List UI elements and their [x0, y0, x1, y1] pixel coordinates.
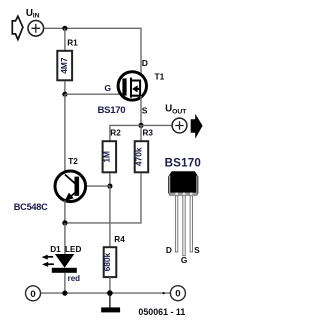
wire R2 to base node: [109, 173, 111, 186]
wire LED to ground rail: [64, 273, 66, 294]
svg-text:D1: D1: [50, 245, 61, 254]
wire out node to U_OUT: [141, 124, 172, 126]
input terminal circle +: [28, 21, 44, 37]
wire top rail to drain: [44, 28, 141, 80]
svg-text:680k: 680k: [102, 252, 112, 271]
svg-text:T2: T2: [68, 157, 78, 166]
svg-text:G: G: [181, 255, 187, 265]
svg-text:red: red: [68, 274, 81, 283]
svg-text:470k: 470k: [133, 147, 143, 166]
svg-text:G: G: [104, 83, 111, 93]
wire emitter node to LED: [64, 223, 66, 255]
wire gate node to T2 collector: [64, 94, 66, 176]
svg-text:BS170: BS170: [165, 156, 201, 169]
node input/R1 junction: [62, 26, 67, 31]
resistor R1: [57, 38, 78, 80]
label U_OUT: [165, 104, 187, 116]
wire out node to R3: [140, 125, 142, 140]
output terminal circle +: [172, 118, 187, 133]
svg-text:OUT: OUT: [172, 108, 187, 115]
svg-text:R1: R1: [67, 38, 78, 47]
BS170 package TO-92 body: [168, 171, 198, 195]
resistor R4: [102, 235, 125, 277]
svg-text:R2: R2: [110, 129, 121, 138]
ground rail wire: [40, 292, 170, 294]
resistor R2: [101, 129, 121, 173]
wire source to out node: [140, 96, 142, 125]
wire R1 to gate node: [64, 81, 66, 94]
wire R3 to emitter node: [65, 173, 141, 223]
svg-text:T1: T1: [155, 71, 165, 81]
svg-text:S: S: [142, 105, 148, 115]
LED D1: [42, 254, 77, 273]
wire base node to R4: [109, 186, 111, 247]
svg-text:4M7: 4M7: [59, 57, 69, 74]
svg-text:D: D: [166, 245, 172, 255]
node gate junction: [62, 92, 67, 97]
node R4/rail junction: [107, 290, 113, 296]
transistor T2 (BC548C): [55, 171, 86, 202]
terminal 0 right: [170, 286, 185, 301]
wire out node to R2: [110, 125, 141, 140]
svg-text:050061 - 11: 050061 - 11: [138, 307, 185, 317]
svg-text:D: D: [142, 58, 148, 68]
label U_IN: [26, 8, 40, 19]
wire junction to R1: [64, 28, 66, 50]
input arrow: [12, 16, 23, 39]
node source junction: [138, 123, 143, 128]
node emitter junction: [62, 220, 67, 225]
svg-text:R4: R4: [114, 235, 125, 244]
svg-text:IN: IN: [33, 12, 40, 19]
ground: [101, 293, 120, 312]
output arrow: [191, 114, 203, 139]
svg-text:R3: R3: [143, 129, 154, 138]
transistor T1 (MOSFET BS170): [118, 72, 146, 100]
node base junction: [107, 184, 112, 189]
BS170 package lead S: [190, 196, 192, 252]
resistor R3: [133, 129, 153, 173]
wire R4 to ground rail: [109, 277, 111, 293]
svg-text:S: S: [194, 245, 200, 255]
svg-text:BS170: BS170: [98, 105, 126, 116]
wire base: [80, 185, 110, 187]
svg-text:1M: 1M: [101, 151, 111, 163]
wire emitter to emitter node: [64, 201, 66, 223]
svg-text:BC548C: BC548C: [14, 202, 48, 212]
svg-text:LED: LED: [65, 245, 81, 254]
wire gate: [65, 93, 124, 95]
terminal 0 left: [26, 286, 41, 301]
BS170 package lead G: [183, 196, 185, 256]
svg-text:0: 0: [30, 289, 35, 300]
node LED/rail junction: [62, 291, 67, 296]
svg-text:0: 0: [175, 289, 180, 300]
BS170 package lead D: [175, 196, 177, 252]
node small rail dot: [163, 292, 165, 294]
